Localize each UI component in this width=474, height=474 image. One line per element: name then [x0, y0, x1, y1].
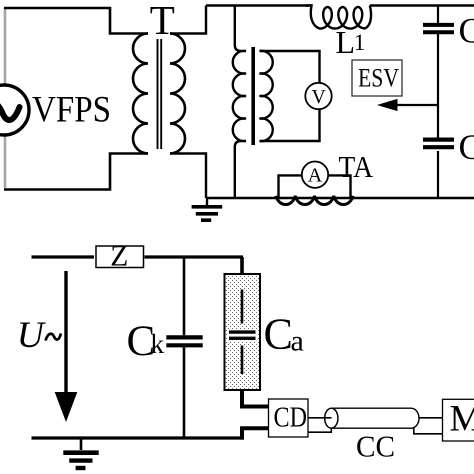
wire: ammeter loop of TA	[279, 175, 351, 198]
wire: Ca bottom lead to CD	[242, 390, 269, 407]
wire: right capacitor rail	[437, 6, 439, 199]
wire: cable shield to M	[414, 428, 443, 434]
wire: LV loop top rail right of Z	[145, 255, 244, 258]
coaxial cable CC left connector ellipse	[325, 408, 338, 428]
transformer PT core	[251, 47, 255, 145]
capacitor Ck bottom lead	[183, 347, 186, 438]
svg-text:M: M	[450, 399, 474, 440]
svg-text:VFPS: VFPS	[32, 90, 111, 131]
svg-text:a: a	[291, 325, 304, 358]
box M (measuring instrument)	[443, 399, 474, 441]
svg-text:ESV: ESV	[358, 64, 399, 93]
svg-text:T: T	[150, 0, 175, 43]
source VFPS circle	[0, 85, 29, 135]
voltmeter V circle	[305, 83, 331, 109]
transformer T primary coil	[133, 34, 148, 154]
svg-text:U: U	[17, 315, 47, 356]
svg-text:A: A	[308, 165, 323, 187]
svg-text:TA: TA	[339, 149, 374, 184]
svg-text:1: 1	[354, 30, 366, 55]
wire: CD to cable centre	[308, 417, 332, 419]
svg-text:CD: CD	[274, 402, 308, 434]
wire: VFPS loop bottom rail	[4, 154, 148, 190]
wire: V meter loop	[260, 51, 320, 141]
capacitor Ca inner electrode bottom	[241, 346, 244, 375]
transformer T secondary coil	[170, 34, 185, 154]
capacitor Ck branch top lead	[183, 257, 186, 335]
wire: VFPS loop top rail	[4, 8, 148, 34]
impedance box Z	[96, 246, 144, 268]
svg-text:Z: Z	[110, 241, 128, 273]
svg-text:C: C	[264, 310, 293, 359]
svg-text:CC: CC	[356, 429, 395, 464]
capacitor Ca inner electrode top	[241, 290, 244, 324]
svg-text:C: C	[459, 11, 474, 51]
wire: top rail after L1	[370, 4, 474, 6]
inductor L1	[306, 6, 372, 29]
capacitor Ca housing	[225, 274, 261, 390]
svg-text:L: L	[336, 24, 356, 60]
wire: gray left-edge vertical of VFPS loop	[4, 8, 7, 188]
wire: bottom rail step up to CD	[242, 428, 269, 439]
wire: T secondary top to rail	[170, 6, 206, 34]
wire: CD to cable shield	[308, 428, 331, 432]
arrow to ESV	[396, 104, 438, 106]
capacitor Ck plates	[166, 337, 202, 345]
wire: T secondary bottom to rail	[170, 154, 206, 199]
wire: LV loop bottom rail	[32, 436, 244, 439]
sine symbol inside VFPS	[0, 102, 20, 120]
ground of LV circuit	[63, 438, 98, 468]
box ESV	[352, 60, 402, 96]
wire: bottom rail of HV circuit	[206, 197, 474, 199]
capacitor Ca inner plates	[228, 330, 257, 341]
wire: top rail of HV circuit	[206, 4, 311, 6]
U~ arrowhead	[55, 392, 78, 422]
capacitor C1 plates	[423, 25, 454, 32]
ammeter A circle	[302, 162, 328, 188]
svg-text:V: V	[312, 87, 326, 108]
svg-text:C: C	[459, 127, 474, 167]
transformer T core	[158, 39, 162, 149]
svg-text:k: k	[151, 329, 165, 359]
U~ arrow line	[64, 271, 67, 393]
transformer PT primary winding (left)	[233, 6, 246, 199]
ground of HV circuit	[192, 198, 223, 220]
transformer PT secondary winding (right)	[260, 51, 273, 141]
wire: LV loop top rail left of Z	[32, 255, 95, 258]
wire: Ca top lead	[240, 257, 244, 275]
coaxial cable CC body	[331, 408, 411, 428]
current transformer TA winding	[276, 196, 353, 205]
box CD (coupling device)	[269, 399, 309, 437]
wire: cable centre to M	[419, 417, 443, 419]
capacitor C2 plates	[423, 140, 454, 148]
coaxial cable CC right cap	[411, 408, 419, 428]
